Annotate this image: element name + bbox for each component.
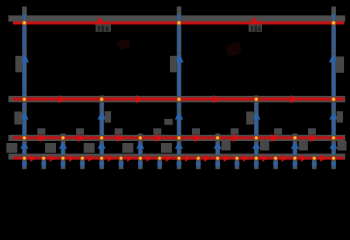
wire: vertical branch conductor at x=140.3 (levels 3-5) [138, 134, 143, 170]
value label I/16 beside level-3/4 blue arrow at x=218 [221, 141, 230, 151]
value label I/4 beside level-1/2 blue arrow at x=334 [336, 57, 345, 73]
red current arrow right on level-2 line at x=140.3 [136, 95, 143, 103]
red current line along level-1 conductor [13, 22, 344, 25]
red current arrow right on level-4 line at x=34.0 [30, 154, 36, 162]
blue current arrow up, level-5 stub below level-4 at x=256.2 [253, 160, 259, 164]
text smudge in I/2 label (right) [251, 26, 261, 32]
blue current arrow up, level-4 to level-3 branch at x=24.4 [20, 141, 28, 149]
red current arrow right on level-3 line at x=198.3 [194, 134, 200, 142]
red current arrow right on level-4 line at x=169.3 [166, 154, 172, 162]
node junction level-3 at x=140 [138, 136, 143, 141]
wire: vertical branch conductor at x=121.0 (levels 4-5) [119, 156, 124, 169]
value label I/8 above level-3 arrow at x=314 [308, 128, 316, 134]
node junction level-2 at x=24 [22, 97, 27, 102]
node junction level-2 at x=256 [254, 97, 259, 102]
node junction level-3 at x=179 [177, 136, 182, 141]
wire: level-4 horizontal conductor (gray casing) [8, 154, 345, 160]
red current arrow right on level-4 line at x=111.3 [108, 154, 114, 162]
value label I/16 beside level-3/4 blue arrow at x=24 [6, 143, 17, 153]
value label I/16 beside level-3/4 blue arrow at x=334 [337, 141, 346, 151]
value label I/8 above level-3 arrow at x=121 [115, 128, 123, 134]
red current line along level-4 conductor [13, 157, 344, 160]
value label I/8 beside level-2/3 blue arrow at x=256 [246, 112, 254, 125]
text smudge in I/2 label (left) [98, 26, 109, 32]
node junction level-4 at x=140 [138, 156, 142, 160]
value label I/8 above level-3 arrow at x=198 [192, 128, 200, 134]
red current arrow right on level-3 line at x=275.6 [271, 134, 277, 142]
blue current arrow up, level-5 stub below level-4 at x=333.6 [330, 160, 336, 164]
blue current arrow up, level-3 to level-2 branch at x=256.2 [255, 103, 258, 111]
node junction level-3 at x=334 [331, 136, 336, 141]
node junction level-4 at x=24 [22, 156, 26, 160]
node junction level-4 at x=179 [177, 156, 181, 160]
red current arrow right on level-3 line at x=159.6 [156, 134, 162, 142]
wire: level-1 horizontal conductor (gray casing) [8, 15, 345, 21]
value label I/8 beside level-2/3 blue arrow at x=179 [164, 119, 172, 125]
blue current arrow up, level-5 stub below level-4 at x=63.0 [60, 160, 66, 164]
node junction level-3 at x=63 [61, 136, 66, 141]
red current arrow right on level-4 line at x=285.2 [282, 154, 288, 162]
wire: vertical branch conductor at x=198.3 (levels 4-5) [196, 156, 201, 169]
wire: vertical branch conductor at x=63.0 (levels 3-5) [61, 134, 66, 170]
blue current arrow up, level-5 stub below level-4 at x=178.9 [176, 160, 182, 164]
blue current arrow up, level-5 stub below level-4 at x=24.4 [21, 160, 27, 164]
value label I/16 beside level-3/4 blue arrow at x=63 [45, 143, 56, 153]
blue current arrow up, level-4 to level-3 branch at x=101.7 [98, 141, 106, 149]
node junction level-4 at x=295 [293, 156, 297, 160]
node junction level-4 at x=44 [41, 156, 45, 160]
value label I/4 beside level-1/2 blue arrow at x=179 [170, 56, 177, 73]
red current arrow right on level-3 line at x=121.0 [117, 134, 123, 142]
red current arrow right on level-4 line at x=150.0 [146, 154, 152, 162]
node junction level-4 at x=237 [235, 156, 239, 160]
wire: vertical branch conductor at x=294.9 (levels 3-5) [293, 134, 298, 170]
blue current arrow up, level-3 to level-2 branch at x=101.7 [100, 103, 103, 111]
blue current arrow up, level-5 stub below level-4 at x=43.7 [41, 160, 47, 164]
value label I/8 above level-3 arrow at x=237 [231, 128, 239, 134]
value label I/8 above level-3 arrow at x=160 [153, 128, 161, 134]
red current arrow right on level-4 line at x=188.6 [185, 154, 191, 162]
wire: vertical branch conductor at x=236.9 (levels 4-5) [235, 156, 240, 169]
blue current arrow up, level-5 stub below level-4 at x=236.9 [234, 160, 240, 164]
red current arrow right on level-3 line at x=82.3 [78, 134, 84, 142]
node junction level-4 at x=334 [331, 156, 335, 160]
red current arrow right on level-4 line at x=304.6 [301, 154, 307, 162]
value label I/16 beside level-3/4 blue arrow at x=140 [122, 143, 133, 153]
wire: vertical branch conductor at x=101.7 (levels 2-5) [99, 96, 104, 170]
value label I/8 beside level-2/3 blue arrow at x=334 [337, 111, 343, 122]
wire: vertical branch conductor at x=159.6 (levels 4-5) [157, 156, 162, 169]
blue current arrow up, level-5 stub below level-4 at x=159.6 [157, 160, 163, 164]
blue current arrow up, level-4 to level-3 branch at x=178.9 [175, 141, 183, 149]
blue current arrow up, level-5 stub below level-4 at x=294.9 [292, 160, 298, 164]
red current arrow right on level-4 line at x=130.6 [127, 154, 133, 162]
value label I/16 beside level-3/4 blue arrow at x=102 [84, 143, 95, 153]
blue current arrow up, level-2 to level-1 branch at x=333.6 [332, 14, 335, 53]
red current line along level-2 conductor [13, 97, 344, 100]
value label I/8 above level-3 arrow at x=276 [274, 128, 282, 134]
node junction level-4 at x=102 [99, 156, 103, 160]
red current arrow right on level-1 line at x=101.6 [98, 17, 106, 29]
node junction level-3 at x=24 [22, 136, 27, 141]
blue current arrow up, level-5 stub below level-4 at x=82.3 [79, 160, 85, 164]
node junction level-4 at x=63 [61, 156, 65, 160]
red current arrow right on level-3 line at x=236.9 [233, 134, 239, 142]
wire: vertical branch conductor at x=217.6 (levels 3-5) [215, 134, 220, 170]
red current arrow right on level-2 line at x=294.9 [291, 95, 298, 103]
blue current arrow up, level-2 to level-1 branch at x=178.9 [178, 14, 181, 53]
blue current arrow up, level-3 to level-2 branch at x=24.4 [23, 103, 26, 111]
node junction level-3 at x=218 [215, 136, 220, 141]
blue current arrow up, level-4 to level-3 branch at x=63.0 [59, 141, 67, 149]
node junction level-1 at x=24 [22, 20, 27, 25]
blue current arrow up, level-5 stub below level-4 at x=121.0 [118, 160, 124, 164]
value label I/8 above level-3 arrow at x=44 [37, 128, 45, 134]
blue current arrow up, level-4 to level-3 branch at x=256.2 [252, 141, 260, 149]
red current arrow right on level-4 line at x=207.9 [204, 154, 210, 162]
blue current arrow up, level-3 to level-2 branch at x=178.9 [178, 103, 181, 111]
wire: vertical branch conductor at x=333.6 (levels 1-5) [331, 7, 336, 170]
blue current arrow up, level-3 to level-2 branch at x=333.6 [332, 103, 335, 111]
wire: vertical branch conductor at x=24.4 (levels 1-5) [22, 7, 27, 170]
value label I/16 beside level-3/4 blue arrow at x=256 [260, 141, 269, 151]
blue current arrow up, level-2 to level-1 branch at x=24.4 [23, 14, 26, 53]
node junction level-2 at x=102 [99, 97, 104, 102]
red current arrow right on level-3 line at x=314.2 [310, 134, 316, 142]
wire: vertical branch conductor at x=275.6 (levels 4-5) [273, 156, 278, 169]
blue current arrow up, level-5 stub below level-4 at x=314.2 [311, 160, 317, 164]
value label I/2 below level-1 arrow (left) [96, 24, 112, 31]
blue current arrow up, level-5 stub below level-4 at x=217.6 [215, 160, 221, 164]
node junction level-2 at x=179 [177, 97, 182, 102]
wire: vertical branch conductor at x=256.2 (levels 2-5) [254, 96, 259, 170]
node junction level-4 at x=198 [196, 156, 200, 160]
wire: vertical branch conductor at x=82.3 (levels 4-5) [80, 156, 85, 169]
node junction level-1 at x=334 [331, 20, 336, 25]
wire: vertical branch conductor at x=314.2 (levels 4-5) [312, 156, 317, 169]
red current arrow right on level-4 line at x=227.3 [224, 154, 230, 162]
blue current arrow up, level-5 stub below level-4 at x=198.3 [195, 160, 201, 164]
wire: level-2 horizontal conductor (gray casing) [8, 96, 345, 102]
red current arrow right on level-4 line at x=265.9 [262, 154, 268, 162]
red current arrow right on level-3 line at x=43.7 [40, 134, 46, 142]
node junction level-4 at x=82 [80, 156, 84, 160]
blue current arrow up, level-4 to level-3 branch at x=333.6 [329, 141, 337, 149]
red current arrow right on level-2 line at x=63.0 [59, 95, 66, 103]
node junction level-3 at x=102 [99, 136, 104, 141]
red current arrow right on level-4 line at x=246.6 [243, 154, 249, 162]
node junction level-2 at x=334 [331, 97, 336, 102]
node junction level-1 at x=179 [177, 20, 182, 25]
value label I/16 beside level-3/4 blue arrow at x=179 [161, 143, 172, 153]
red current arrow right on level-4 line at x=323.9 [320, 154, 326, 162]
node junction level-3 at x=295 [293, 136, 298, 141]
blue current arrow up, level-4 to level-3 branch at x=217.6 [214, 141, 222, 149]
blue current arrow up, level-5 stub below level-4 at x=101.7 [99, 160, 105, 164]
red current arrow right on level-4 line at x=72.7 [69, 154, 75, 162]
node junction level-4 at x=121 [119, 156, 123, 160]
node junction level-4 at x=276 [273, 156, 277, 160]
red current arrow right on level-2 line at x=217.6 [213, 95, 220, 103]
value label I/8 above level-3 arrow at x=82 [76, 128, 84, 134]
node junction level-3 at x=256 [254, 136, 259, 141]
wire: vertical branch conductor at x=43.7 (levels 4-5) [41, 156, 46, 169]
node junction level-4 at x=314 [312, 156, 316, 160]
wire: level-3 horizontal conductor (gray casing) [8, 135, 345, 141]
blue current arrow up, level-5 stub below level-4 at x=275.6 [272, 160, 278, 164]
wire: vertical branch conductor at x=178.9 (levels 1-5) [177, 7, 182, 170]
red current arrow right on level-4 line at x=53.3 [50, 154, 56, 162]
value label I/2 below level-1 arrow (right) [249, 24, 263, 31]
blue current arrow up, level-4 to level-3 branch at x=294.9 [291, 141, 299, 149]
value label I/8 beside level-2/3 blue arrow at x=24 [14, 112, 22, 125]
value label I/4 beside level-1/2 blue arrow at x=24 [15, 56, 22, 73]
blue current arrow up, level-4 to level-3 branch at x=140.3 [136, 141, 144, 149]
node junction level-4 at x=218 [215, 156, 219, 160]
node junction level-4 at x=256 [254, 156, 258, 160]
faint label I/2 between level 1 and 2 (right) [225, 41, 243, 56]
blue current arrow up, level-5 stub below level-4 at x=140.3 [137, 160, 143, 164]
faint label I/2 between level 1 and 2 (left) [117, 38, 131, 50]
value label I/8 beside level-2/3 blue arrow at x=102 [105, 111, 111, 122]
red current arrow right on level-4 line at x=92.0 [88, 154, 94, 162]
red current arrow right on level-1 line at x=256.2 [252, 17, 260, 29]
red current line along level-3 conductor [13, 136, 344, 139]
value label I/16 beside level-3/4 blue arrow at x=295 [299, 141, 308, 151]
node junction level-4 at x=160 [157, 156, 161, 160]
